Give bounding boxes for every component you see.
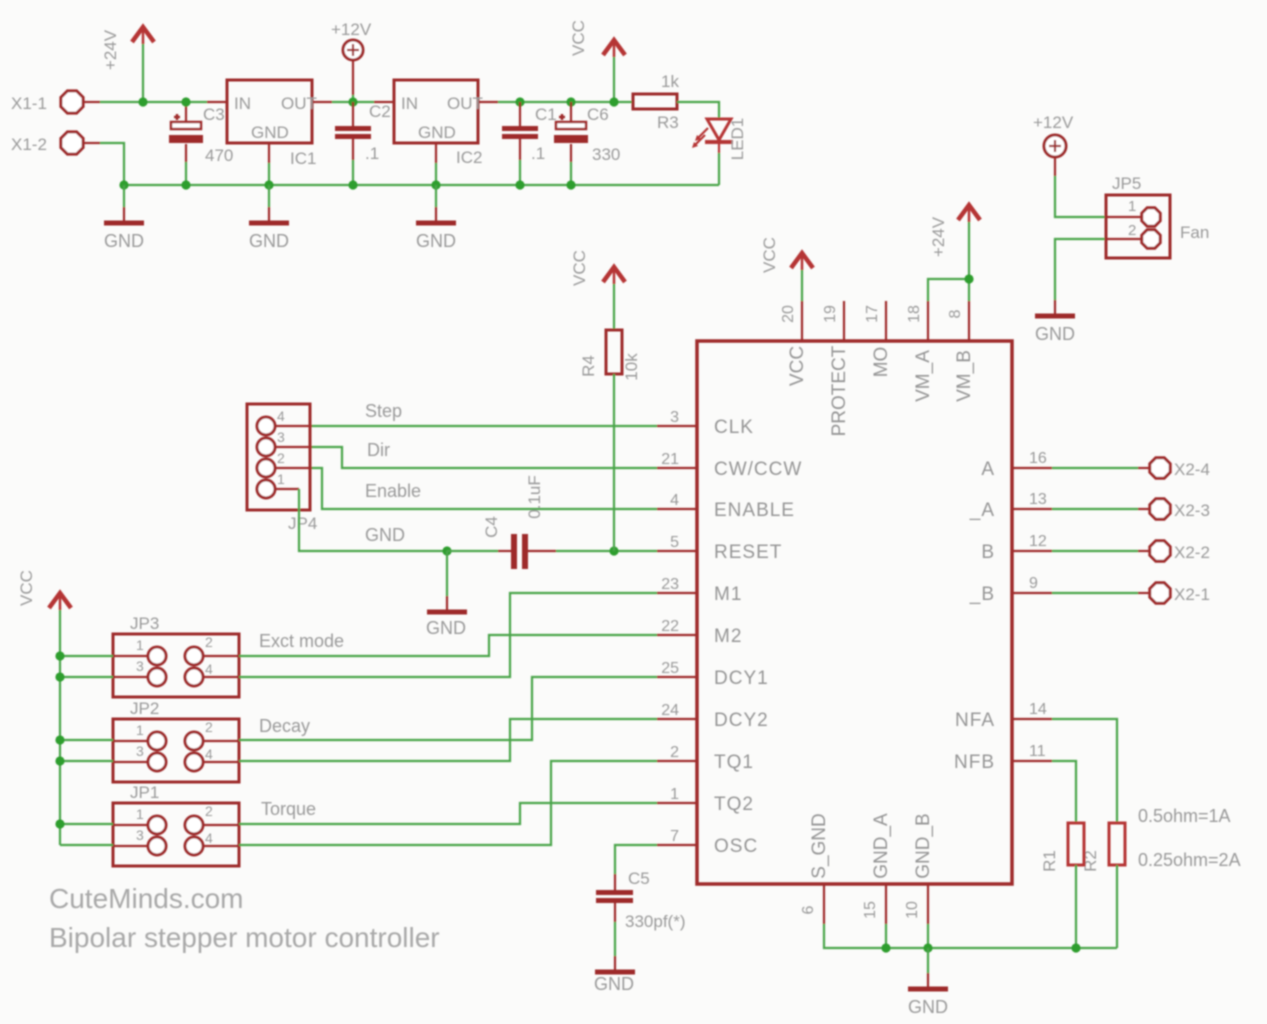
svg-text:Exct mode: Exct mode bbox=[259, 631, 344, 651]
svg-text:6: 6 bbox=[800, 905, 817, 914]
IC pin 14 NFA bbox=[955, 701, 1052, 731]
svg-text:Decay: Decay bbox=[259, 716, 310, 736]
ground rail top bbox=[124, 184, 719, 186]
junction GND_B bbox=[923, 943, 932, 952]
svg-text:GND: GND bbox=[249, 231, 289, 251]
IC pin 20 VCC bbox=[780, 301, 808, 386]
svg-text:4: 4 bbox=[205, 830, 213, 846]
IC pin 25 DCY1 bbox=[657, 660, 769, 689]
svg-text:2: 2 bbox=[205, 634, 213, 650]
wire NFA to R2 bbox=[1052, 719, 1117, 823]
supply VCC arrow R4 bbox=[570, 250, 625, 330]
IC pin 11 NFB bbox=[954, 743, 1052, 773]
IC pin 10 GND_B bbox=[904, 813, 934, 924]
svg-text:VCC: VCC bbox=[569, 20, 588, 56]
junction rail C1 bbox=[515, 180, 524, 189]
connector JP3 bbox=[113, 614, 344, 697]
svg-text:DCY1: DCY1 bbox=[714, 668, 769, 689]
ground symbol bottom bbox=[908, 948, 948, 1017]
wire GND to JP5 pin2 bbox=[1055, 239, 1141, 300]
svg-text:12: 12 bbox=[1029, 533, 1047, 550]
connector pad X2-1 bbox=[1052, 583, 1210, 604]
capacitor C4 bbox=[447, 475, 657, 569]
IC pin 18 VM_A bbox=[906, 301, 934, 402]
wire Step to CLK bbox=[312, 425, 657, 427]
svg-text:.1: .1 bbox=[531, 144, 545, 163]
wire GND_A stub bbox=[885, 924, 887, 948]
wire JP4 pin1 to GND net bbox=[299, 489, 447, 551]
svg-text:+12V: +12V bbox=[331, 20, 372, 39]
svg-text:11: 11 bbox=[1029, 743, 1046, 760]
svg-text:C2: C2 bbox=[369, 102, 391, 121]
junction rail C3 bbox=[181, 180, 190, 189]
connector pad X2-2 bbox=[1052, 541, 1210, 562]
svg-text:VCC: VCC bbox=[570, 250, 589, 286]
supply VCC arrow IC bbox=[760, 237, 813, 301]
wire R3 to LED1 bbox=[677, 102, 719, 119]
ground symbol IC1 bbox=[249, 185, 289, 251]
IC pin 8 VM_B bbox=[947, 301, 975, 402]
svg-text:1: 1 bbox=[1128, 198, 1136, 215]
svg-text:4: 4 bbox=[277, 408, 285, 424]
svg-text:JP5: JP5 bbox=[1112, 174, 1141, 193]
svg-text:+24V: +24V bbox=[929, 216, 948, 257]
LED LED1 bbox=[692, 118, 747, 161]
title Bipolar stepper motor controller bbox=[49, 922, 440, 953]
resistor R2 bbox=[1081, 823, 1125, 948]
svg-text:Fan: Fan bbox=[1180, 223, 1209, 242]
IC pin 22 M2 bbox=[657, 618, 742, 647]
net label GND bbox=[365, 525, 405, 545]
svg-text:X1-1: X1-1 bbox=[11, 94, 47, 113]
net label Dir bbox=[367, 440, 390, 460]
svg-text:IN: IN bbox=[401, 94, 418, 113]
junction VCC R3 bbox=[609, 97, 618, 106]
svg-text:GND: GND bbox=[104, 231, 144, 251]
junction rail X1-2 bbox=[119, 180, 128, 189]
svg-text:21: 21 bbox=[661, 451, 679, 468]
svg-text:A: A bbox=[981, 459, 995, 480]
svg-text:GND: GND bbox=[251, 123, 289, 142]
voltage regulator IC2 bbox=[374, 80, 498, 185]
svg-text:3: 3 bbox=[136, 743, 144, 759]
junction C4 left bbox=[442, 546, 451, 555]
svg-text:OUT: OUT bbox=[281, 94, 317, 113]
svg-text:VM_B: VM_B bbox=[954, 350, 975, 402]
svg-text:CuteMinds.com: CuteMinds.com bbox=[49, 883, 244, 914]
junction rail IC1 bbox=[264, 180, 273, 189]
ground symbol left bbox=[104, 185, 144, 251]
svg-text:PROTECT: PROTECT bbox=[829, 345, 850, 436]
svg-text:C4: C4 bbox=[482, 516, 501, 538]
wire JP2 pin4 to DCY2 bbox=[239, 719, 657, 761]
IC pin 19 PROTECT bbox=[822, 301, 850, 436]
wire JP1 pin2 to TQ2 bbox=[239, 803, 657, 824]
svg-text:Bipolar stepper motor controll: Bipolar stepper motor controller bbox=[49, 922, 440, 953]
capacitor C5 bbox=[596, 869, 685, 956]
svg-text:_B: _B bbox=[969, 584, 995, 605]
svg-text:NFA: NFA bbox=[955, 710, 995, 731]
svg-text:19: 19 bbox=[822, 305, 839, 323]
svg-text:10k: 10k bbox=[622, 353, 641, 381]
svg-text:Dir: Dir bbox=[367, 440, 390, 460]
supply +24V arrow IC bbox=[929, 205, 980, 279]
IC pin 24 DCY2 bbox=[657, 702, 769, 731]
svg-text:Enable: Enable bbox=[365, 481, 421, 501]
supply +24V arrow bbox=[101, 27, 154, 102]
svg-text:X2-3: X2-3 bbox=[1174, 501, 1210, 520]
ground symbol C4 bbox=[426, 551, 467, 638]
svg-text:GND: GND bbox=[426, 618, 466, 638]
junction rail C2 bbox=[348, 180, 357, 189]
svg-text:25: 25 bbox=[661, 660, 679, 677]
svg-text:15: 15 bbox=[862, 901, 879, 919]
junction rail C6 bbox=[566, 180, 575, 189]
svg-text:GND: GND bbox=[908, 997, 948, 1017]
svg-text:GND_A: GND_A bbox=[871, 813, 892, 879]
connector pad X1-2 bbox=[11, 132, 100, 154]
junction VCC col y740 bbox=[55, 735, 113, 744]
svg-text:VCC: VCC bbox=[787, 346, 808, 386]
svg-text:IC2: IC2 bbox=[456, 148, 482, 167]
svg-text:10: 10 bbox=[904, 901, 921, 919]
svg-text:LED1: LED1 bbox=[728, 118, 747, 161]
svg-text:3: 3 bbox=[136, 827, 144, 843]
IC pin 5 RESET bbox=[657, 534, 782, 563]
wire JP2 pin2 to DCY1 bbox=[239, 677, 657, 740]
resistor R3 bbox=[633, 72, 679, 132]
wire +12V to JP5 pin1 bbox=[1055, 176, 1141, 217]
svg-text:3: 3 bbox=[670, 409, 679, 426]
svg-text:X2-1: X2-1 bbox=[1174, 585, 1210, 604]
svg-text:NFB: NFB bbox=[954, 752, 995, 773]
wire Dir to CW/CCW bbox=[312, 447, 657, 468]
connector JP2 bbox=[113, 699, 310, 782]
wire JP3 pin4 to M1 bbox=[239, 593, 657, 677]
svg-text:7: 7 bbox=[670, 828, 679, 845]
svg-text:GND_B: GND_B bbox=[913, 813, 934, 878]
IC pin 21 CW/CCW bbox=[657, 451, 802, 480]
capacitor C6 bbox=[554, 102, 620, 185]
svg-text:C6: C6 bbox=[587, 105, 609, 124]
wire IC1 OUT to IC2 IN bbox=[332, 101, 374, 103]
svg-text:R1: R1 bbox=[1040, 850, 1059, 872]
svg-text:GND: GND bbox=[416, 231, 456, 251]
capacitor C1 bbox=[502, 102, 557, 185]
svg-text:JP3: JP3 bbox=[130, 614, 159, 633]
wire Enable to ENABLE bbox=[312, 468, 657, 509]
net label Enable bbox=[365, 481, 421, 501]
connector pad X1-1 bbox=[11, 91, 100, 113]
junction +24V bbox=[964, 274, 973, 283]
net label Step bbox=[365, 401, 402, 421]
svg-text:VM_A: VM_A bbox=[913, 350, 934, 402]
svg-text:4: 4 bbox=[670, 492, 679, 509]
svg-text:JP1: JP1 bbox=[130, 783, 159, 802]
svg-text:GND: GND bbox=[594, 974, 634, 994]
svg-text:0.5ohm=1A: 0.5ohm=1A bbox=[1138, 806, 1231, 826]
junction GND_A bbox=[881, 943, 890, 952]
junction VCC col y761 bbox=[55, 756, 113, 765]
junction C1 top bbox=[515, 97, 524, 106]
voltage regulator IC1 bbox=[207, 80, 332, 185]
svg-text:C1: C1 bbox=[535, 105, 557, 124]
svg-text:1: 1 bbox=[136, 637, 144, 653]
svg-text:ENABLE: ENABLE bbox=[714, 500, 795, 521]
IC pin 12 B bbox=[981, 533, 1052, 563]
IC pin 7 OSC bbox=[657, 828, 758, 857]
junction C6 top bbox=[566, 97, 575, 106]
svg-text:1: 1 bbox=[670, 786, 679, 803]
svg-text:1k: 1k bbox=[661, 72, 679, 91]
svg-text:5: 5 bbox=[670, 534, 679, 551]
resistor R4 bbox=[579, 330, 641, 551]
wire +24V to VM_A VM_B bbox=[928, 279, 969, 301]
svg-text:IC1: IC1 bbox=[290, 149, 316, 168]
wire X1-2 down bbox=[100, 143, 124, 185]
svg-text:DCY2: DCY2 bbox=[714, 710, 769, 731]
junction C3 top bbox=[181, 97, 190, 106]
svg-text:+24V: +24V bbox=[101, 29, 120, 70]
wire OSC to C5 bbox=[615, 845, 657, 874]
svg-text:3: 3 bbox=[136, 658, 144, 674]
svg-text:TQ1: TQ1 bbox=[714, 752, 754, 773]
svg-text:CLK: CLK bbox=[714, 417, 754, 438]
svg-text:2: 2 bbox=[205, 719, 213, 735]
IC pin 6 S_GND bbox=[800, 813, 830, 924]
svg-text:1: 1 bbox=[277, 471, 285, 487]
svg-text:RESET: RESET bbox=[714, 542, 782, 563]
svg-text:2: 2 bbox=[1128, 222, 1136, 239]
wire S_GND to ground rail bbox=[824, 924, 1117, 948]
svg-text:4: 4 bbox=[205, 661, 213, 677]
svg-text:2: 2 bbox=[670, 744, 679, 761]
svg-text:MO: MO bbox=[871, 347, 892, 378]
ground symbol fan bbox=[1035, 300, 1075, 344]
svg-text:JP4: JP4 bbox=[288, 514, 317, 533]
svg-text:0.25ohm=2A: 0.25ohm=2A bbox=[1138, 850, 1241, 870]
svg-text:2: 2 bbox=[277, 450, 285, 466]
connector pad X2-4 bbox=[1052, 458, 1210, 479]
svg-text:13: 13 bbox=[1029, 491, 1047, 508]
supply +12V symbol bbox=[331, 20, 372, 102]
svg-text:330pf(*): 330pf(*) bbox=[625, 912, 685, 931]
svg-text:VCC: VCC bbox=[17, 570, 36, 606]
resistor R1 bbox=[1040, 823, 1084, 948]
svg-text:20: 20 bbox=[780, 305, 797, 323]
supply VCC arrow top bbox=[569, 20, 625, 102]
svg-text:22: 22 bbox=[661, 618, 679, 635]
svg-text:CW/CCW: CW/CCW bbox=[714, 459, 802, 480]
svg-text:C5: C5 bbox=[628, 869, 650, 888]
IC pin 3 CLK bbox=[657, 409, 754, 438]
svg-text:.1: .1 bbox=[365, 144, 379, 163]
IC pin 1 TQ2 bbox=[657, 786, 754, 815]
IC pin 4 ENABLE bbox=[657, 492, 795, 521]
IC pin 13 _A bbox=[969, 491, 1052, 521]
IC pin 9 _B bbox=[969, 575, 1052, 605]
junction VCC col y656 bbox=[55, 651, 113, 660]
wire VCC col to JP1 pin3 bbox=[60, 844, 113, 846]
svg-text:R3: R3 bbox=[657, 113, 679, 132]
svg-text:OSC: OSC bbox=[714, 836, 758, 857]
connector JP1 bbox=[113, 783, 316, 866]
svg-text:2: 2 bbox=[205, 803, 213, 819]
svg-text:GND: GND bbox=[365, 525, 405, 545]
wire NFB to R1 bbox=[1052, 761, 1076, 823]
connector JP4 bbox=[247, 404, 317, 533]
IC pin 17 MO bbox=[864, 301, 892, 377]
svg-text:+12V: +12V bbox=[1033, 113, 1074, 132]
svg-text:14: 14 bbox=[1029, 701, 1047, 718]
junction +24V bbox=[138, 97, 147, 106]
ground symbol C5 bbox=[594, 956, 635, 994]
svg-text:Torque: Torque bbox=[261, 799, 316, 819]
svg-text:_A: _A bbox=[969, 500, 995, 521]
wire GND_B stub bbox=[927, 924, 929, 948]
junction RESET R4 bbox=[609, 546, 618, 555]
svg-text:Step: Step bbox=[365, 401, 402, 421]
ground symbol IC2 bbox=[416, 185, 456, 251]
svg-text:C3: C3 bbox=[203, 105, 225, 124]
svg-text:18: 18 bbox=[906, 305, 923, 323]
IC U1 body bbox=[697, 341, 1012, 884]
svg-text:X2-2: X2-2 bbox=[1174, 543, 1210, 562]
svg-text:3: 3 bbox=[277, 429, 285, 445]
svg-text:R4: R4 bbox=[579, 355, 598, 377]
label resistor values bbox=[1138, 806, 1241, 870]
svg-text:IN: IN bbox=[234, 94, 251, 113]
IC pin 23 M1 bbox=[657, 576, 742, 605]
svg-text:TQ2: TQ2 bbox=[714, 794, 754, 815]
svg-text:16: 16 bbox=[1029, 450, 1047, 467]
svg-text:4: 4 bbox=[205, 746, 213, 762]
connector pad X2-3 bbox=[1052, 499, 1210, 520]
wire IC2 OUT to R3 bbox=[498, 101, 633, 103]
svg-text:S_GND: S_GND bbox=[809, 813, 830, 878]
connector JP5 bbox=[1106, 174, 1209, 258]
svg-text:M2: M2 bbox=[714, 626, 742, 647]
svg-text:GND: GND bbox=[418, 123, 456, 142]
junction R1 bottom bbox=[1071, 943, 1080, 952]
svg-text:M1: M1 bbox=[714, 584, 742, 605]
junction rail IC2 bbox=[431, 180, 440, 189]
capacitor C2 bbox=[335, 102, 391, 185]
svg-text:1: 1 bbox=[136, 806, 144, 822]
IC pin 15 GND_A bbox=[862, 813, 892, 924]
svg-text:9: 9 bbox=[1029, 575, 1038, 592]
wire JP1 pin4 to TQ1 bbox=[239, 761, 657, 845]
svg-text:24: 24 bbox=[661, 702, 679, 719]
svg-text:B: B bbox=[981, 542, 995, 563]
wire X1-1 to IC1 IN bbox=[100, 101, 207, 103]
svg-text:OUT: OUT bbox=[447, 94, 483, 113]
svg-text:17: 17 bbox=[864, 305, 881, 323]
svg-text:GND: GND bbox=[1035, 324, 1075, 344]
svg-text:X1-2: X1-2 bbox=[11, 135, 47, 154]
svg-text:23: 23 bbox=[661, 576, 679, 593]
svg-text:1: 1 bbox=[136, 722, 144, 738]
svg-text:8: 8 bbox=[947, 309, 964, 318]
supply +12V symbol fan bbox=[1033, 113, 1074, 176]
wire JP3 pin2 to M2 bbox=[239, 635, 657, 656]
IC pin 16 A bbox=[981, 450, 1052, 480]
svg-text:VCC: VCC bbox=[760, 237, 779, 273]
wire LED1 to ground rail bbox=[718, 153, 720, 185]
junction C2 top bbox=[348, 97, 357, 106]
svg-text:470: 470 bbox=[205, 146, 233, 165]
svg-text:JP2: JP2 bbox=[130, 699, 159, 718]
svg-text:X2-4: X2-4 bbox=[1174, 460, 1210, 479]
svg-text:0.1uF: 0.1uF bbox=[525, 475, 544, 518]
svg-text:330: 330 bbox=[592, 145, 620, 164]
capacitor C3 bbox=[169, 102, 233, 185]
junction VCC col y677 bbox=[55, 672, 113, 681]
title CuteMinds.com bbox=[49, 883, 244, 914]
supply VCC arrow jumpers bbox=[17, 570, 71, 845]
IC pin 2 TQ1 bbox=[657, 744, 754, 773]
junction VCC col y824 bbox=[55, 819, 113, 828]
